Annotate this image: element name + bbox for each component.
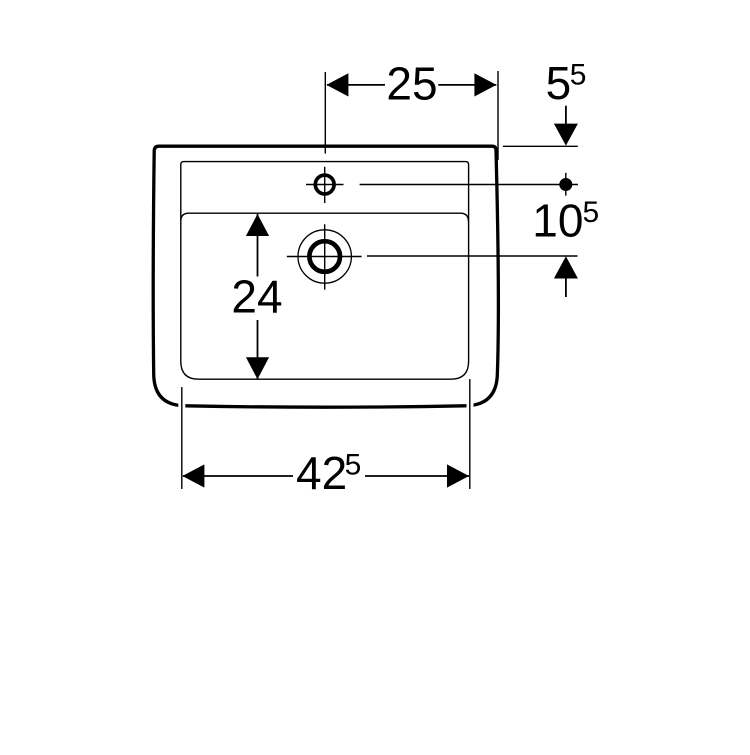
svg-text:24: 24	[231, 271, 282, 323]
svg-text:25: 25	[386, 58, 437, 110]
